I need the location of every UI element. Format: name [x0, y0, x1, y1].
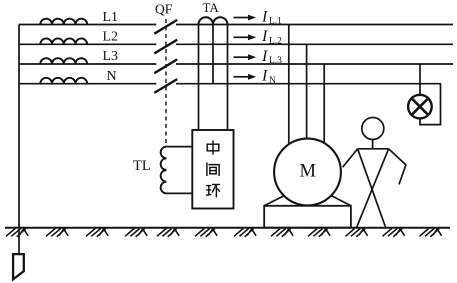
breaker QF pole 1 blade [154, 20, 177, 34]
lamp X stroke 2 [412, 98, 429, 115]
motor base slant right [332, 196, 351, 206]
arrow I_L1 [234, 15, 257, 21]
svg-text:QF: QF [155, 2, 173, 17]
wire drop from L1 to motor [288, 25, 290, 145]
svg-text:L2: L2 [103, 30, 119, 45]
wire drop from L2 to motor [306, 44, 308, 139]
lamp X stroke 1 [412, 98, 429, 115]
svg-text:L3: L3 [103, 49, 119, 64]
arrow I_L2 [234, 34, 257, 40]
wire L1 left segment [19, 24, 156, 26]
svg-text:TA: TA [203, 0, 220, 15]
wire L1 right segment [176, 24, 453, 26]
motor M circle [274, 139, 341, 206]
svg-text:L1: L1 [103, 10, 119, 25]
ground surface line [5, 227, 450, 229]
breaker QF pole 3 blade [154, 59, 177, 73]
inductor choke on L3 [40, 58, 87, 64]
wire TL top to box [167, 146, 193, 148]
TA middle leg to N [212, 25, 214, 84]
intermediate element box (zhong jian huan) [192, 130, 233, 209]
svg-text:L.1: L.1 [269, 17, 282, 27]
svg-text:L.2: L.2 [269, 36, 282, 46]
inductor choke on L2 [40, 38, 87, 44]
person neck [372, 140, 374, 149]
svg-text:I: I [261, 8, 268, 25]
wire N left segment [19, 83, 156, 85]
arrow I_L3 [234, 54, 257, 60]
wire N right segment [176, 83, 441, 85]
inductor choke on L1 [40, 19, 87, 25]
svg-text:TL: TL [133, 158, 151, 174]
person body cross 1 [358, 149, 386, 228]
person head [362, 118, 384, 140]
svg-text:I: I [261, 68, 268, 85]
motor base rectangle [264, 206, 351, 228]
current transformer TA core arcs [199, 17, 228, 24]
svg-text:I: I [261, 28, 268, 45]
lamp return wire to N [420, 84, 441, 125]
hanzi JIAN in box [207, 162, 219, 176]
hanzi ZHONG in box [207, 141, 219, 155]
hanzi HUAN in box [206, 185, 220, 198]
wire L2 right segment [176, 43, 453, 45]
wire L3 left segment [19, 63, 156, 65]
svg-text:I: I [261, 48, 268, 65]
motor base slant left [264, 196, 284, 206]
wire: left vertical earth bus [18, 25, 20, 255]
TA secondary wire left leg [198, 25, 200, 131]
wire TL bottom to box [167, 192, 193, 194]
breaker QF pole 4 blade [154, 79, 177, 93]
breaker QF linkage dashed line [165, 19, 167, 146]
breaker QF pole 2 blade [154, 40, 177, 54]
person body cross 2 [357, 149, 389, 228]
ground hatching [6, 228, 442, 236]
svg-text:N: N [107, 69, 117, 84]
wire L3 right segment [176, 63, 453, 65]
arrow I_N [234, 74, 257, 80]
earth electrode plate [13, 254, 24, 279]
trip coil TL winding [161, 147, 167, 194]
inductor choke on N [40, 78, 87, 84]
lamp HL circle [408, 95, 432, 119]
person shoulders [358, 148, 389, 150]
wire drop from L3 to lamp [419, 64, 421, 95]
person left arm touching motor [343, 149, 358, 167]
svg-text:L.3: L.3 [269, 56, 282, 66]
svg-text:N: N [269, 76, 276, 86]
svg-text:M: M [300, 161, 316, 181]
wire L2 left segment [19, 43, 156, 45]
TA secondary wire right leg [227, 25, 229, 131]
wire drop from L3 to motor [323, 64, 325, 142]
person right arm bent [389, 149, 406, 185]
